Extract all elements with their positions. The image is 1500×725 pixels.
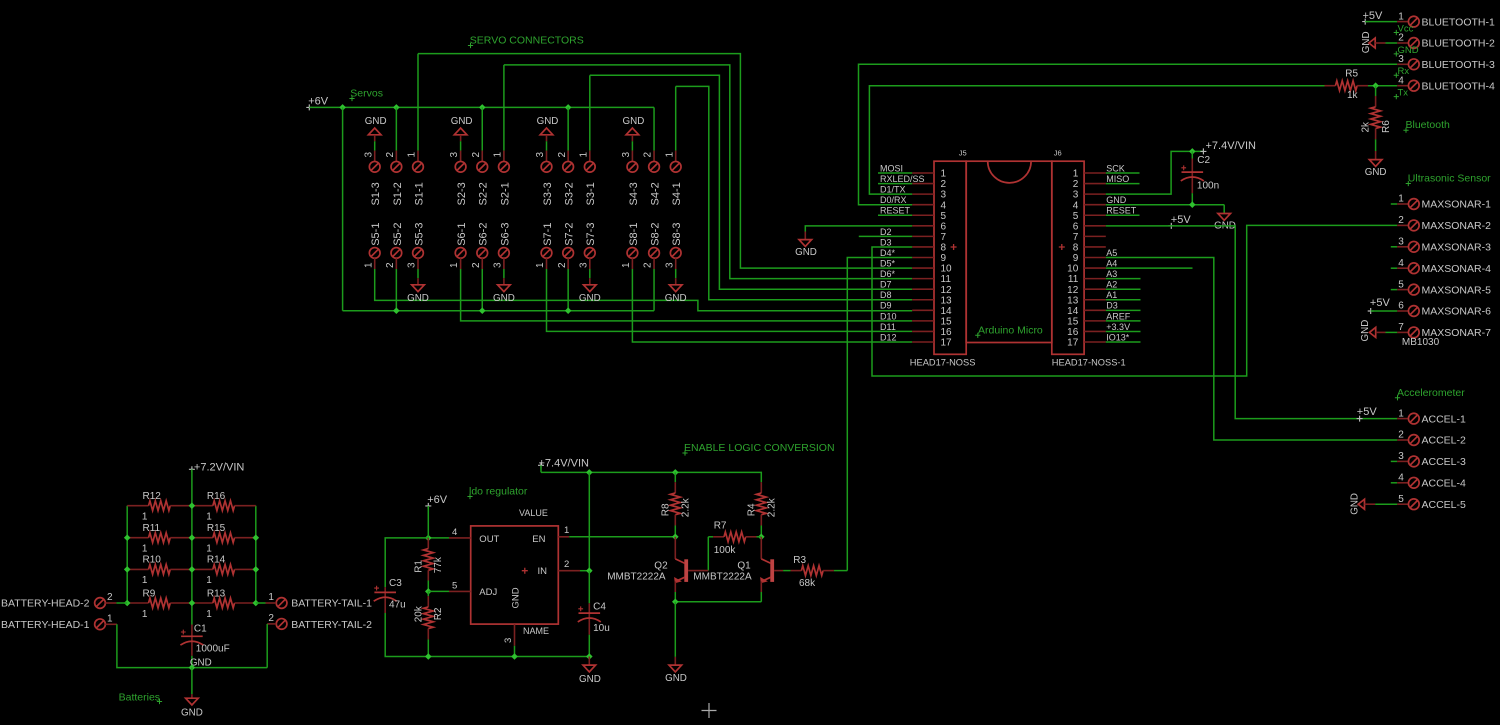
svg-text:GND: GND xyxy=(579,293,601,304)
svg-text:+5V: +5V xyxy=(1171,214,1192,226)
connector ACCEL-5 xyxy=(1397,503,1409,505)
svg-text:7: 7 xyxy=(1073,232,1079,243)
svg-text:3: 3 xyxy=(941,190,947,201)
svg-text:2.2k: 2.2k xyxy=(767,497,778,517)
connector MAXSONAR-3 xyxy=(1391,246,1397,248)
svg-text:D2: D2 xyxy=(880,227,892,237)
pin J6.10 xyxy=(1084,267,1106,269)
ground GND below C4 xyxy=(588,657,590,666)
svg-text:2: 2 xyxy=(385,152,396,158)
svg-text:EN: EN xyxy=(532,534,545,545)
svg-text:GND: GND xyxy=(665,293,687,304)
wire battery left rail xyxy=(126,506,128,603)
wire +7.4V/VIN rail to R4 xyxy=(541,472,761,482)
svg-text:D9: D9 xyxy=(880,301,892,311)
svg-text:2: 2 xyxy=(557,152,568,158)
wire servo S4-1 bus to J5 pin 13 xyxy=(676,86,913,299)
resistor R11 1 xyxy=(127,537,148,539)
svg-text:1: 1 xyxy=(1398,194,1404,205)
svg-text:GND: GND xyxy=(407,293,429,304)
svg-text:MISO: MISO xyxy=(1106,174,1129,184)
connector MAXSONAR-7 xyxy=(1397,331,1409,333)
svg-text:1: 1 xyxy=(142,575,148,586)
svg-text:7: 7 xyxy=(1398,322,1404,333)
svg-text:1000uF: 1000uF xyxy=(196,643,230,654)
IC U2 regulator box xyxy=(471,526,559,624)
svg-text:S5-1: S5-1 xyxy=(370,223,382,246)
svg-text:R1: R1 xyxy=(414,560,425,573)
pin J5.2 xyxy=(912,183,934,185)
svg-text:3: 3 xyxy=(1398,54,1404,65)
svg-text:3: 3 xyxy=(1398,237,1404,248)
wire net D2 stub xyxy=(859,235,912,237)
pin J5.8 xyxy=(912,246,934,248)
svg-text:D6*: D6* xyxy=(880,269,896,279)
capacitor C4 10u xyxy=(588,571,590,604)
svg-text:4: 4 xyxy=(1398,258,1404,269)
svg-text:J6: J6 xyxy=(1054,149,1062,158)
svg-text:2: 2 xyxy=(1073,179,1079,190)
svg-text:R5: R5 xyxy=(1345,68,1358,79)
svg-text:C3: C3 xyxy=(389,578,402,589)
wire R6 to GND xyxy=(1375,139,1377,151)
svg-text:MAXSONAR-4: MAXSONAR-4 xyxy=(1422,263,1492,275)
svg-text:Q1: Q1 xyxy=(737,561,751,572)
svg-text:MMBT2222A: MMBT2222A xyxy=(607,572,666,583)
pin J6.7 xyxy=(1084,235,1106,237)
svg-text:17: 17 xyxy=(941,338,953,349)
pin J6.14 xyxy=(1084,309,1106,311)
svg-text:3: 3 xyxy=(578,262,589,268)
wire servo S2-1 bus to J5 pin 11 xyxy=(504,65,912,279)
svg-text:7: 7 xyxy=(941,232,947,243)
svg-text:C1: C1 xyxy=(194,624,207,635)
svg-text:S8-2: S8-2 xyxy=(649,223,661,246)
pin J5.11 xyxy=(912,278,934,280)
cursor crosshair xyxy=(702,703,717,718)
wire servo S1-1 bus to J5 pin 10 xyxy=(418,54,912,268)
svg-text:10u: 10u xyxy=(593,623,610,634)
wire net +3.3V stub xyxy=(1106,330,1141,332)
pin J6.13 xyxy=(1084,299,1106,301)
connector BLUETOOTH-4 xyxy=(1397,85,1409,87)
wire net MISO stub xyxy=(1106,183,1140,185)
header J6 box xyxy=(1052,161,1084,354)
pin J6.5 xyxy=(1084,214,1106,216)
connector S3-3 xyxy=(546,151,548,162)
svg-text:14: 14 xyxy=(1067,306,1079,317)
svg-text:2.2k: 2.2k xyxy=(681,497,692,517)
svg-text:Batteries: Batteries xyxy=(119,691,160,703)
ground GND below Q2 xyxy=(674,602,676,657)
ground GND below S6-3 xyxy=(503,269,505,278)
wire +6V rail xyxy=(309,106,654,108)
svg-text:1: 1 xyxy=(206,575,212,586)
connector BLUETOOTH-1 xyxy=(1397,21,1409,23)
pin J5.7 xyxy=(912,235,934,237)
svg-text:ACCEL-2: ACCEL-2 xyxy=(1422,435,1467,447)
junction battery left rail xyxy=(124,600,131,607)
pin J6.3 xyxy=(1084,193,1106,195)
svg-text:3: 3 xyxy=(503,638,514,643)
svg-text:R16: R16 xyxy=(207,491,226,502)
ground GND below R6 xyxy=(1375,151,1377,160)
ground GND right of C2 xyxy=(1223,205,1225,214)
connector ACCEL-1 xyxy=(1397,418,1409,420)
wire ADJ to divider xyxy=(428,590,449,592)
wire C1 to GND rail xyxy=(191,656,193,668)
resistor R14 1 xyxy=(192,568,213,570)
svg-text:S3-3: S3-3 xyxy=(542,182,554,205)
wire net A3 stub xyxy=(1106,278,1141,280)
wire J6 pin3 to +7.4V/VIN xyxy=(1106,151,1204,194)
svg-text:3: 3 xyxy=(664,262,675,268)
wire BATTERY-HEAD-1 to GND rail xyxy=(117,624,267,667)
svg-text:RXLED/SS: RXLED/SS xyxy=(880,174,925,184)
wire net SCK stub xyxy=(1106,172,1140,174)
svg-text:1: 1 xyxy=(1398,11,1404,22)
svg-text:A2: A2 xyxy=(1106,280,1117,290)
supply +5V cross on ACCEL-1 wire xyxy=(1357,416,1363,422)
wire BATTERY-TAIL-2 down to GND rail xyxy=(266,624,268,668)
svg-text:100k: 100k xyxy=(714,545,737,556)
svg-text:GND: GND xyxy=(1360,320,1371,342)
svg-text:2: 2 xyxy=(643,152,654,158)
svg-text:1: 1 xyxy=(564,525,569,536)
pin OUT 4 xyxy=(449,537,471,539)
connector MAXSONAR-1 xyxy=(1391,203,1397,205)
connector MAXSONAR-6 xyxy=(1397,310,1409,312)
svg-text:D1/TX: D1/TX xyxy=(880,185,906,195)
svg-text:R14: R14 xyxy=(207,555,226,566)
svg-text:2: 2 xyxy=(643,262,654,268)
wire net A4 stub xyxy=(1106,267,1193,269)
svg-text:1: 1 xyxy=(363,262,374,268)
svg-text:1: 1 xyxy=(142,512,148,523)
connector S1-2 xyxy=(395,151,397,162)
ground GND below S8-3 xyxy=(675,269,677,278)
svg-text:1: 1 xyxy=(449,262,460,268)
svg-text:2: 2 xyxy=(107,592,113,603)
junction +6V to bottom rail xyxy=(339,104,346,111)
svg-text:16: 16 xyxy=(941,327,953,338)
svg-text:GND: GND xyxy=(510,587,521,608)
svg-text:+7.2V/VIN: +7.2V/VIN xyxy=(194,461,245,473)
svg-text:15: 15 xyxy=(941,316,953,327)
resistor R7 100k xyxy=(708,536,713,538)
connector ACCEL-4 xyxy=(1391,482,1397,484)
junction battery center rail xyxy=(189,502,196,509)
supply +6V servo rail xyxy=(306,104,312,110)
svg-text:SERVO CONNECTORS: SERVO CONNECTORS xyxy=(470,35,584,47)
svg-text:1: 1 xyxy=(493,152,504,158)
resistor R13 1 xyxy=(192,602,213,604)
wire net RXLED/SS stub xyxy=(878,183,912,185)
svg-text:VALUE: VALUE xyxy=(519,508,548,518)
resistor R3 68k xyxy=(791,570,802,572)
svg-text:+6V: +6V xyxy=(427,494,448,506)
svg-text:6: 6 xyxy=(941,221,947,232)
svg-text:6: 6 xyxy=(1073,221,1079,232)
svg-text:+7.4V/VIN: +7.4V/VIN xyxy=(539,457,590,469)
wire net Rx BLUETOOTH-3 to J5 pin4 xyxy=(859,64,1398,204)
svg-text:R3: R3 xyxy=(793,555,806,566)
svg-text:MMBT2222A: MMBT2222A xyxy=(693,572,752,583)
pin J5.16 xyxy=(912,330,934,332)
svg-text:S1-1: S1-1 xyxy=(413,182,425,205)
svg-text:11: 11 xyxy=(1068,274,1079,285)
svg-text:11: 11 xyxy=(941,274,952,285)
svg-text:9: 9 xyxy=(1073,253,1079,264)
svg-text:S4-3: S4-3 xyxy=(628,182,640,205)
connector S2-1 xyxy=(503,151,505,162)
svg-text:BATTERY-HEAD-1: BATTERY-HEAD-1 xyxy=(1,619,90,631)
junction battery left rail xyxy=(124,534,131,541)
wire BATTERY-HEAD-2 to rail xyxy=(116,602,127,604)
svg-text:3: 3 xyxy=(493,262,504,268)
svg-text:S5-3: S5-3 xyxy=(413,223,425,246)
wire net D4* J5 pin9 down to R3 xyxy=(847,258,912,571)
svg-text:47u: 47u xyxy=(389,599,406,610)
svg-text:Arduino Micro: Arduino Micro xyxy=(978,324,1043,336)
svg-text:GND: GND xyxy=(537,116,559,127)
wire BLUETOOTH-2 to GND xyxy=(1386,42,1398,44)
svg-text:MAXSONAR-6: MAXSONAR-6 xyxy=(1422,306,1492,318)
svg-text:AREF: AREF xyxy=(1106,311,1131,321)
svg-text:2: 2 xyxy=(471,152,482,158)
svg-text:100n: 100n xyxy=(1197,181,1219,192)
svg-text:2k: 2k xyxy=(1360,121,1371,133)
connector S4-3 xyxy=(631,151,633,162)
svg-text:J5: J5 xyxy=(959,149,967,158)
svg-text:GND: GND xyxy=(623,116,645,127)
wire net RESET stub J5 xyxy=(878,214,912,216)
svg-text:Ultrasonic Sensor: Ultrasonic Sensor xyxy=(1408,173,1491,185)
svg-text:16: 16 xyxy=(1067,327,1079,338)
svg-text:S8-3: S8-3 xyxy=(671,223,683,246)
pin J6.17 xyxy=(1084,341,1106,343)
svg-text:S2-2: S2-2 xyxy=(478,182,490,205)
svg-text:R13: R13 xyxy=(207,588,226,599)
junction bottom rail at S6-2 xyxy=(479,307,486,314)
wire VIN down to IN xyxy=(588,472,590,570)
svg-text:8: 8 xyxy=(1073,243,1079,254)
junction battery left rail xyxy=(124,566,131,573)
svg-text:ADJ: ADJ xyxy=(479,587,497,598)
svg-text:3: 3 xyxy=(621,152,632,158)
svg-text:R6: R6 xyxy=(1381,120,1392,133)
svg-text:S4-1: S4-1 xyxy=(671,182,683,205)
svg-text:R10: R10 xyxy=(143,555,162,566)
svg-text:68k: 68k xyxy=(799,578,816,589)
svg-text:D11: D11 xyxy=(880,322,896,332)
junction Q2 collector node xyxy=(672,534,679,541)
junction battery right rail xyxy=(253,600,260,607)
svg-text:77k: 77k xyxy=(433,556,444,573)
ground GND below S7-3 xyxy=(589,269,591,278)
svg-text:+3.3V: +3.3V xyxy=(1106,322,1130,332)
pin GND 3 regulator xyxy=(514,624,516,646)
pin J5.13 xyxy=(912,299,934,301)
pin J5.1 xyxy=(912,172,934,174)
junction GND rail at C4 xyxy=(586,653,593,660)
svg-text:R8: R8 xyxy=(661,503,672,516)
svg-text:10: 10 xyxy=(1067,264,1079,275)
svg-text:1: 1 xyxy=(407,152,418,158)
junction ADJ node xyxy=(425,588,432,595)
svg-text:MAXSONAR-5: MAXSONAR-5 xyxy=(1422,284,1492,296)
resistor R6 2k xyxy=(1375,86,1377,96)
wire BATTERY-TAIL-1 to rail xyxy=(256,602,266,604)
wire net AREF stub xyxy=(1106,320,1141,322)
connector BLUETOOTH-3 xyxy=(1397,63,1409,65)
pin J5.12 xyxy=(912,288,934,290)
svg-text:4: 4 xyxy=(941,200,947,211)
wire S5-1 signal xyxy=(375,269,913,311)
svg-text:1: 1 xyxy=(535,262,546,268)
wire net MOSI stub xyxy=(878,172,912,174)
junction +6V at S3-2 xyxy=(565,104,572,111)
pin J6.8 xyxy=(1084,246,1106,248)
svg-text:3: 3 xyxy=(1398,451,1404,462)
connector S1-3 xyxy=(374,151,376,162)
pin J5.15 xyxy=(912,320,934,322)
svg-text:A4: A4 xyxy=(1106,258,1117,268)
resistor R2 20k xyxy=(427,591,429,596)
supply +6V at regulator xyxy=(425,503,431,509)
junction Q1 collector node xyxy=(758,534,765,541)
connector ACCEL-3 xyxy=(1391,460,1397,462)
supply +7.2V/VIN xyxy=(189,466,195,472)
resistor R16 1 xyxy=(192,505,213,507)
svg-text:13: 13 xyxy=(1067,295,1079,306)
supply +5V at MAXSONAR-6 xyxy=(1368,308,1374,314)
junction rail at regulator GND xyxy=(511,653,518,660)
svg-text:1: 1 xyxy=(142,609,148,620)
svg-text:1: 1 xyxy=(268,592,274,603)
svg-text:13: 13 xyxy=(941,295,953,306)
svg-text:S1-3: S1-3 xyxy=(370,182,382,205)
svg-text:HEAD17-NOSS: HEAD17-NOSS xyxy=(910,357,976,367)
svg-text:S7-2: S7-2 xyxy=(564,223,576,246)
svg-text:S3-2: S3-2 xyxy=(564,182,576,205)
supply +7.4V/VIN at C2 xyxy=(1200,148,1206,154)
pin IN 2 xyxy=(558,570,580,572)
svg-text:2: 2 xyxy=(1398,215,1404,226)
svg-text:MAXSONAR-3: MAXSONAR-3 xyxy=(1422,242,1492,254)
svg-text:3: 3 xyxy=(1073,190,1079,201)
svg-text:R2: R2 xyxy=(433,607,444,620)
pin J6.16 xyxy=(1084,330,1106,332)
junction bottom rail at S5-2 xyxy=(393,307,400,314)
svg-text:+5V: +5V xyxy=(1357,406,1378,418)
wire +5V to BLUETOOTH-1 xyxy=(1365,21,1397,23)
svg-text:+5V: +5V xyxy=(1370,297,1391,309)
junction C2 top xyxy=(1189,148,1196,155)
wire C3 to GND rail xyxy=(385,613,589,657)
svg-text:2: 2 xyxy=(268,613,274,624)
svg-text:15: 15 xyxy=(1067,316,1079,327)
svg-text:3: 3 xyxy=(449,152,460,158)
pin J5.3 xyxy=(912,193,934,195)
junction +6V at S2-2 xyxy=(479,104,486,111)
svg-text:BATTERY-HEAD-2: BATTERY-HEAD-2 xyxy=(1,598,90,610)
wire +7.2V/VIN down xyxy=(191,469,193,505)
svg-text:S6-2: S6-2 xyxy=(478,223,490,246)
svg-text:D4*: D4* xyxy=(880,248,896,258)
svg-text:ENABLE LOGIC CONVERSION: ENABLE LOGIC CONVERSION xyxy=(684,442,835,454)
svg-text:+6V: +6V xyxy=(308,96,329,108)
svg-text:MB1030: MB1030 xyxy=(1402,337,1440,348)
wire C4 to GND rail xyxy=(588,635,590,657)
svg-text:D0/RX: D0/RX xyxy=(880,195,907,205)
svg-text:RESET: RESET xyxy=(1106,206,1137,216)
svg-text:1: 1 xyxy=(206,609,212,620)
svg-text:NAME: NAME xyxy=(523,626,549,636)
wire net D3 stub xyxy=(1106,309,1141,311)
svg-text:A5: A5 xyxy=(1106,248,1117,258)
svg-text:9: 9 xyxy=(941,253,947,264)
svg-text:20k: 20k xyxy=(414,605,425,622)
resistor R12 1 xyxy=(127,505,148,507)
svg-text:+5V: +5V xyxy=(1363,10,1384,22)
capacitor C2 100n xyxy=(1191,151,1193,158)
svg-text:D3: D3 xyxy=(1106,301,1118,311)
wire S2-3 to GND xyxy=(460,141,462,150)
svg-text:D10: D10 xyxy=(880,311,897,321)
svg-text:GND: GND xyxy=(795,247,817,258)
pin J6.11 xyxy=(1084,278,1106,280)
svg-text:ldo regulator: ldo regulator xyxy=(469,486,528,498)
connector S3-2 xyxy=(567,151,569,162)
wire S4-1 signal up to bus xyxy=(675,86,677,150)
connector S4-2 xyxy=(653,151,655,162)
wire battery right rail xyxy=(255,506,257,603)
svg-text:RESET: RESET xyxy=(880,206,911,216)
svg-text:GND: GND xyxy=(451,116,473,127)
IC U1 Arduino Micro outline box xyxy=(966,161,1052,342)
wire R3 to D4* column xyxy=(834,570,847,572)
svg-text:5: 5 xyxy=(1073,211,1079,222)
svg-text:D7: D7 xyxy=(880,280,892,290)
resistor R4 2.2k xyxy=(760,482,762,493)
junction IN node xyxy=(586,567,593,574)
svg-text:4: 4 xyxy=(1398,75,1404,86)
svg-text:10: 10 xyxy=(941,264,953,275)
svg-text:SCK: SCK xyxy=(1106,163,1125,173)
wire EN to R8 node xyxy=(569,536,675,538)
wire S3-2 to +6V rail xyxy=(567,107,569,150)
connector S2-3 xyxy=(460,151,462,162)
pin J5.9 xyxy=(912,257,934,259)
supply +5V at BLUETOOTH-1 xyxy=(1362,19,1368,25)
svg-text:R15: R15 xyxy=(207,523,226,534)
svg-text:ACCEL-5: ACCEL-5 xyxy=(1422,499,1467,511)
pin EN 1 xyxy=(558,536,569,538)
wire S8-2 to +6V bottom rail xyxy=(653,269,655,311)
wire S1-1 signal up to bus xyxy=(417,54,419,151)
capacitor C3 47u xyxy=(384,587,386,592)
svg-text:R11: R11 xyxy=(143,523,161,534)
svg-text:R12: R12 xyxy=(143,491,162,502)
svg-text:14: 14 xyxy=(941,306,953,317)
svg-text:1: 1 xyxy=(206,512,212,523)
svg-text:1: 1 xyxy=(206,544,212,555)
svg-text:3: 3 xyxy=(407,262,418,268)
pin J5.14 xyxy=(912,309,934,311)
resistor R10 1 xyxy=(127,568,148,570)
svg-text:D8: D8 xyxy=(880,290,892,300)
